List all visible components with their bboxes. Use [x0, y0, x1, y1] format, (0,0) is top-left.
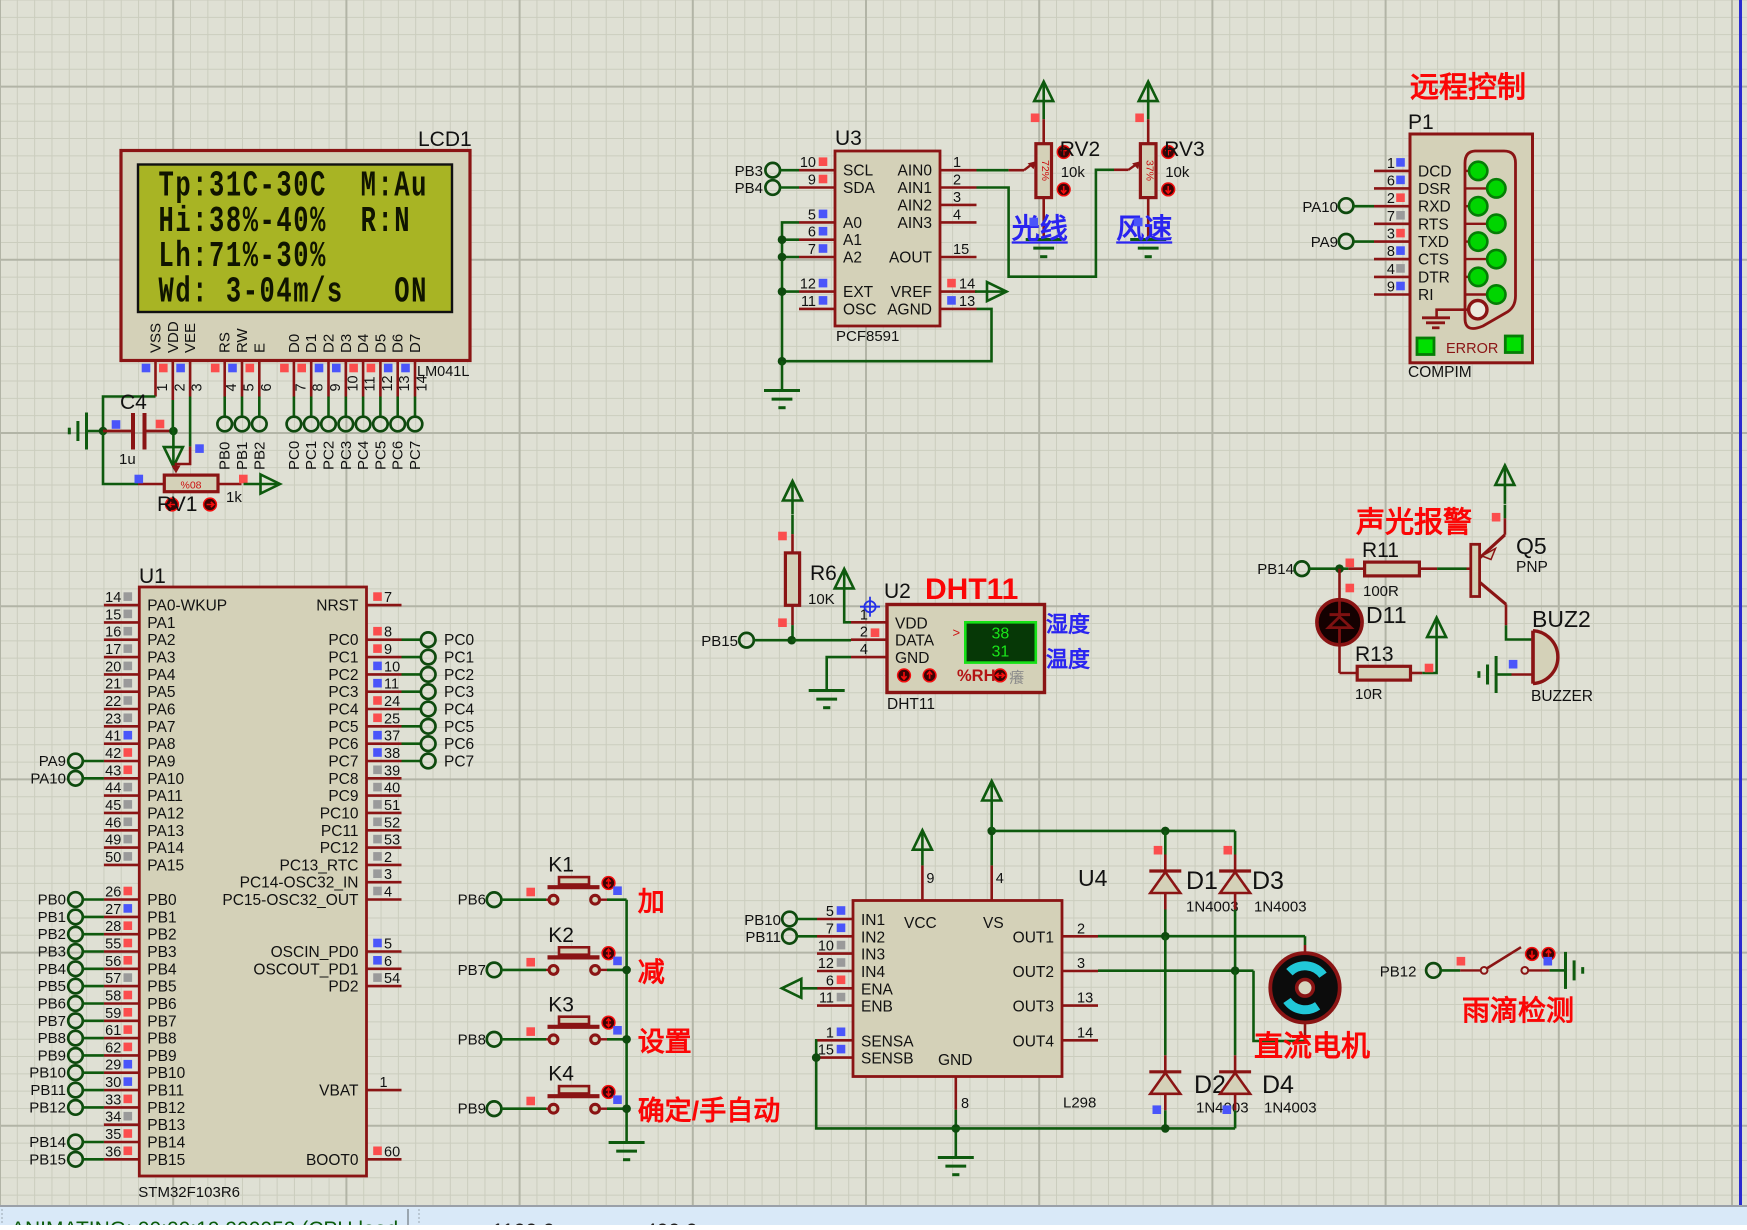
svg-text:PC4: PC4	[328, 702, 359, 719]
svg-text:34: 34	[105, 1110, 121, 1126]
svg-text:59: 59	[105, 1006, 121, 1022]
svg-text:GND: GND	[895, 650, 929, 667]
DB9 pin circle	[1469, 232, 1487, 250]
svg-text:10: 10	[345, 375, 361, 391]
terminal PB7 (button K2)	[487, 963, 502, 978]
P1 status LED square right	[1505, 336, 1522, 353]
U1 pin 17 PA3	[104, 656, 139, 659]
svg-text:PA15: PA15	[147, 857, 184, 874]
terminal PB2	[252, 417, 267, 432]
LCD pin 11 D4	[362, 361, 365, 397]
svg-text:1N4003: 1N4003	[1254, 899, 1307, 916]
wire AIN0 to RV2 wiper	[977, 169, 1009, 172]
wire K2 to bus	[607, 969, 627, 972]
terminal PC7 (U1)	[402, 760, 422, 763]
U1 pin 53 PC12	[367, 846, 402, 849]
svg-text:Q5: Q5	[1516, 533, 1547, 559]
wire pin to terminal PC3	[344, 397, 347, 418]
wire GND to ground	[954, 1110, 957, 1157]
svg-text:SDA: SDA	[843, 180, 876, 197]
wire PB1	[82, 916, 104, 919]
svg-text:癢: 癢	[1009, 669, 1024, 687]
wire PB15	[82, 1158, 104, 1161]
LCD screen	[138, 165, 452, 313]
svg-text:R13: R13	[1355, 643, 1394, 666]
wire PB6 to K1	[501, 898, 546, 901]
DB9 pin 9 circle (white)	[1469, 301, 1487, 319]
svg-text:15: 15	[105, 607, 121, 623]
U1 pin 58 PB6	[104, 1002, 139, 1005]
potentiometer RV1	[138, 483, 164, 486]
svg-text:2: 2	[860, 625, 868, 641]
DB9 pin circle	[1487, 215, 1505, 233]
power terminal (above RV2)	[1034, 82, 1053, 102]
svg-text:PB5: PB5	[147, 979, 176, 996]
LCD pin 5 RW	[241, 361, 244, 397]
power terminal right (VREF)	[987, 282, 1007, 301]
svg-text:PB6: PB6	[38, 996, 66, 1013]
svg-text:OSCOUT_PD1: OSCOUT_PD1	[253, 961, 358, 978]
svg-text:E: E	[251, 343, 268, 353]
junction D1 top	[1161, 827, 1170, 836]
svg-text:PA3: PA3	[147, 650, 175, 667]
svg-text:PC2: PC2	[444, 667, 474, 684]
wire PB4 to SDA	[780, 186, 799, 189]
svg-text:PCF8591: PCF8591	[836, 328, 899, 345]
wire K1 to bus	[607, 898, 627, 901]
terminal PA10 (P1)	[1339, 198, 1354, 213]
svg-text:5: 5	[384, 937, 392, 953]
svg-text:PC7: PC7	[407, 441, 424, 470]
svg-text:AIN3: AIN3	[898, 215, 932, 232]
svg-text:PA9: PA9	[1311, 234, 1338, 251]
svg-text:1: 1	[380, 1075, 388, 1091]
junction SENSB	[812, 1053, 821, 1062]
wire OUT1 row	[1098, 935, 1305, 938]
terminal PB14 (U1)	[68, 1135, 83, 1150]
svg-text:PA9: PA9	[39, 753, 66, 770]
U3 pin 11 OSC	[799, 308, 835, 311]
svg-text:PC2: PC2	[321, 441, 338, 470]
wire K3 to bus	[607, 1038, 627, 1041]
U4 pin 14 OUT4	[1062, 1039, 1098, 1042]
terminal PC2	[321, 417, 336, 432]
svg-text:26: 26	[105, 885, 121, 901]
U1 pin 46 PA13	[104, 829, 139, 832]
power terminal (Q5)	[1495, 465, 1514, 485]
svg-text:PB3: PB3	[147, 944, 176, 961]
terminal PB10 (U1)	[68, 1065, 83, 1080]
power terminal (above R6)	[783, 481, 802, 501]
svg-text:A0: A0	[843, 215, 862, 232]
terminal PB8 (U1)	[68, 1031, 83, 1046]
U3 pin 5 A0	[799, 221, 835, 224]
svg-text:1N4003: 1N4003	[1196, 1100, 1249, 1117]
svg-text:PA13: PA13	[147, 823, 184, 840]
U1 pin 41 PA8	[104, 742, 139, 745]
svg-text:RS: RS	[217, 332, 234, 353]
wire VS to rail	[990, 831, 993, 866]
wire pin2 VDD	[172, 400, 175, 431]
U4 pin 9 VCC	[921, 865, 924, 900]
LCD pin 12 D5	[379, 361, 382, 397]
svg-text:22: 22	[105, 694, 121, 710]
svg-text:K2: K2	[548, 924, 574, 947]
U1 pin 37 PC6	[367, 742, 402, 745]
wire PB9	[82, 1054, 104, 1057]
svg-text:PB2: PB2	[147, 927, 176, 944]
terminal PB0 (U1)	[68, 892, 83, 907]
svg-text:PC10: PC10	[320, 805, 359, 822]
svg-text:4: 4	[996, 871, 1004, 887]
svg-text:9: 9	[384, 642, 392, 658]
wire to D2	[1164, 936, 1167, 1055]
wire PA9 to TXD	[1353, 240, 1374, 243]
svg-text:11: 11	[801, 294, 816, 310]
U1 pin 54 PD2	[367, 985, 402, 988]
U1 pin 42 PA9	[104, 760, 139, 763]
power terminal left (ENA)	[782, 979, 802, 998]
DB9 pin circle	[1469, 197, 1487, 215]
U4 pin 12 IN4	[817, 970, 853, 973]
DB9 pin circle	[1469, 268, 1487, 286]
P1 pin 3 TXD	[1374, 240, 1410, 243]
U1 pin 34 PB13	[104, 1123, 139, 1126]
svg-text:4: 4	[1387, 262, 1395, 278]
svg-text:PB7: PB7	[147, 1013, 176, 1030]
svg-text:远程控制: 远程控制	[1410, 71, 1526, 104]
svg-text:PC13_RTC: PC13_RTC	[280, 857, 359, 874]
junction D2 bottom	[1161, 1124, 1170, 1133]
terminal PC5	[373, 417, 388, 432]
U1 pin 24 PC4	[367, 708, 402, 711]
DB9 connector outline	[1465, 151, 1516, 329]
junction OUT2/D3	[1231, 966, 1240, 975]
wire BUZ2 bottom to ground	[1512, 673, 1534, 676]
svg-text:L298: L298	[1063, 1095, 1096, 1112]
svg-text:60: 60	[384, 1144, 400, 1160]
terminal PB11 (U1)	[68, 1083, 83, 1098]
resistor R13	[1338, 644, 1341, 673]
svg-text:PA9: PA9	[147, 754, 175, 771]
svg-text:1: 1	[826, 1025, 834, 1041]
ground (U4)	[938, 1156, 974, 1159]
svg-text:PB15: PB15	[147, 1152, 185, 1169]
svg-text:4: 4	[384, 885, 392, 901]
svg-text:P1: P1	[1408, 111, 1434, 134]
power terminal (VS)	[982, 781, 1001, 801]
P1 pin 9 RI	[1374, 293, 1410, 296]
svg-text:DSR: DSR	[1418, 181, 1451, 198]
svg-text:6: 6	[826, 973, 834, 989]
LCD pin 1 VSS	[154, 361, 157, 397]
svg-text:14: 14	[1077, 1025, 1093, 1041]
junction GND rail	[952, 1124, 961, 1133]
P1 pin 7 RTS	[1374, 223, 1410, 226]
wire PB3 to SCL	[780, 169, 799, 172]
potentiometer RV3 body	[1147, 119, 1150, 144]
svg-text:46: 46	[105, 815, 121, 831]
svg-text:61: 61	[105, 1023, 121, 1039]
svg-text:PC4: PC4	[355, 441, 372, 470]
svg-text:24: 24	[384, 694, 400, 710]
svg-text:PB15: PB15	[701, 633, 738, 650]
svg-text:EXT: EXT	[843, 284, 874, 301]
LCD pin 3 VEE	[189, 361, 192, 397]
svg-text:PB10: PB10	[744, 912, 781, 929]
power terminal down (VDD)	[164, 447, 183, 467]
P1 pin 2 RXD	[1374, 205, 1410, 208]
svg-text:45: 45	[105, 798, 121, 814]
wire K4 to bus	[607, 1107, 627, 1110]
LED D11	[1338, 569, 1341, 602]
terminal PC2 (U1)	[402, 673, 422, 676]
svg-text:D4: D4	[355, 334, 372, 353]
svg-text:LM041L: LM041L	[417, 364, 469, 380]
wire pin to terminal PC4	[362, 397, 365, 418]
svg-text:AGND: AGND	[887, 301, 932, 318]
terminal PB7 (U1)	[68, 1014, 83, 1029]
svg-text:PNP: PNP	[1516, 559, 1548, 576]
svg-text:D6: D6	[390, 334, 407, 353]
svg-text:ANIMATING: 00:00:19.900052 (CP: ANIMATING: 00:00:19.900052 (CPU load 4%)	[11, 1218, 441, 1225]
diode D2 1N4003	[1164, 1055, 1167, 1072]
svg-text:PC14-OSC32_IN: PC14-OSC32_IN	[240, 875, 359, 892]
wire to D1	[1164, 831, 1167, 855]
K4 press knob	[602, 1086, 615, 1099]
svg-text:PB0: PB0	[147, 892, 177, 909]
svg-text:OSC: OSC	[843, 301, 877, 318]
svg-text:K1: K1	[548, 854, 574, 877]
wire to ground	[781, 361, 784, 390]
U1 pin 5 OSCIN_PD0	[367, 950, 402, 953]
U1 pin 49 PA14	[104, 846, 139, 849]
P1 pin 6 DSR	[1374, 187, 1410, 190]
U1 pin 59 PB7	[104, 1019, 139, 1022]
svg-text:VDD: VDD	[165, 321, 182, 353]
DB9 pin link	[1464, 240, 1478, 242]
svg-text:ENB: ENB	[861, 999, 893, 1016]
U1 pin 16 PA2	[104, 638, 139, 641]
ground (RV2)	[1026, 238, 1062, 241]
svg-text:VDD: VDD	[895, 615, 928, 632]
U4 pin 2 OUT1	[1062, 935, 1098, 938]
DHT11 pin 2 DATA	[851, 638, 887, 641]
terminal PB11 (U4)	[782, 929, 797, 944]
svg-text:7: 7	[826, 921, 834, 937]
svg-text:IN3: IN3	[861, 947, 885, 964]
svg-text:PB9: PB9	[458, 1101, 486, 1118]
svg-text:37%: 37%	[1144, 160, 1156, 181]
P1 status LED square left	[1417, 338, 1434, 355]
svg-text:%08: %08	[180, 480, 201, 492]
svg-text:12: 12	[800, 277, 816, 293]
svg-text:PA11: PA11	[147, 788, 183, 805]
wire PB8 to K3	[501, 1038, 546, 1041]
U1 pin 52 PC11	[367, 829, 402, 832]
U4 pin 4 VS	[990, 865, 993, 900]
U1 pin 15 PA1	[104, 621, 139, 624]
U1 pin 23 PA7	[104, 725, 139, 728]
junction C4 left	[99, 427, 108, 436]
U4 pin 10 IN3	[817, 952, 853, 955]
svg-text:PC1: PC1	[328, 650, 358, 667]
wire D1-OUT1	[1164, 910, 1167, 937]
svg-text:25: 25	[384, 711, 400, 727]
svg-text:>: >	[953, 625, 961, 640]
ground (DHT11)	[809, 689, 845, 692]
terminal PA10 (U1)	[68, 771, 83, 786]
svg-text:PB8: PB8	[38, 1030, 66, 1047]
power terminal right (RV1)	[261, 475, 281, 494]
svg-text:3: 3	[1387, 227, 1395, 243]
DB9 pin circle	[1487, 250, 1505, 268]
U3 pin 10 SCL	[799, 169, 835, 172]
DC motor	[1270, 953, 1339, 1022]
svg-text:PA14: PA14	[147, 840, 184, 857]
svg-text:D5: D5	[372, 334, 389, 353]
svg-text:BUZ2: BUZ2	[1532, 606, 1591, 632]
junction VDD	[169, 427, 178, 436]
LCD pin 13 D6	[396, 361, 399, 397]
wire PB7	[82, 1019, 104, 1022]
svg-text:PC11: PC11	[321, 823, 359, 840]
svg-text:BUZZER: BUZZER	[1531, 688, 1593, 705]
U1 pin 27 PB1	[104, 916, 139, 919]
U4 pin 15 SENSB	[817, 1056, 853, 1059]
ground (left of C4)	[87, 430, 104, 433]
svg-text:PB1: PB1	[147, 909, 176, 926]
svg-text:D4: D4	[1262, 1071, 1294, 1099]
svg-text:雨滴检测: 雨滴检测	[1462, 994, 1574, 1026]
svg-text:OUT1: OUT1	[1013, 929, 1054, 946]
wire PA10	[82, 777, 104, 780]
wire PB15 to DATA	[753, 639, 791, 642]
U1 pin 21 PA5	[104, 690, 139, 693]
svg-text:PB7: PB7	[38, 1013, 66, 1030]
LCD pin 4 RS	[223, 361, 226, 397]
wire pin to terminal PC6	[396, 397, 399, 418]
svg-text:U2: U2	[884, 580, 911, 603]
svg-text:SENSB: SENSB	[861, 1051, 914, 1068]
svg-text:VCC: VCC	[904, 915, 937, 932]
svg-text:PB10: PB10	[29, 1065, 66, 1082]
svg-text:PB4: PB4	[735, 180, 763, 197]
U1 pin 14 PA0-WKUP	[104, 604, 139, 607]
svg-text:PB5: PB5	[38, 978, 66, 995]
svg-text:51: 51	[384, 798, 400, 814]
svg-text:15: 15	[818, 1043, 834, 1059]
terminal PB14 (alarm)	[1295, 561, 1310, 576]
svg-text:37: 37	[384, 729, 400, 745]
svg-text:PB4: PB4	[147, 961, 177, 978]
U1 pin 35 PB14	[104, 1141, 139, 1144]
svg-text:10k: 10k	[1165, 164, 1190, 181]
terminal PB5 (U1)	[68, 979, 83, 994]
U1 pin 50 PA15	[104, 864, 139, 867]
U1 pin 9 PC1	[367, 656, 402, 659]
svg-text:2: 2	[953, 173, 961, 189]
wire PB0	[82, 898, 104, 901]
P1 pin 1 DCD	[1374, 170, 1410, 173]
svg-text:PC9: PC9	[328, 788, 358, 805]
terminal PB15 (U1)	[68, 1152, 83, 1167]
svg-text:IN4: IN4	[861, 964, 886, 981]
K2 press knob	[602, 947, 615, 960]
top rail (VS)	[992, 830, 1235, 833]
wire VSS net	[103, 397, 156, 432]
wire PB6	[82, 1002, 104, 1005]
power terminal (above RV3)	[1139, 82, 1158, 102]
svg-text:PD2: PD2	[328, 979, 358, 996]
svg-text:AIN2: AIN2	[898, 197, 932, 214]
svg-text:4: 4	[953, 207, 961, 223]
svg-text:PC7: PC7	[328, 754, 358, 771]
svg-text:10k: 10k	[1061, 164, 1086, 181]
RV2 adjust buttons	[1057, 146, 1070, 159]
terminal PC0	[287, 417, 302, 432]
svg-text:R11: R11	[1362, 539, 1399, 562]
terminal PC0 (U1)	[402, 638, 422, 641]
U1 pin 38 PC7	[367, 760, 402, 763]
wire pin to terminal PC1	[310, 397, 313, 418]
svg-text:12: 12	[380, 375, 396, 391]
svg-text:PB0: PB0	[38, 892, 66, 909]
svg-text:PB0: PB0	[217, 442, 234, 470]
svg-text:IN2: IN2	[861, 929, 885, 946]
wire pin to terminal PB0	[223, 397, 226, 418]
svg-text:RW: RW	[234, 327, 251, 353]
U1 pin 11 PC3	[367, 690, 402, 693]
svg-text:28: 28	[105, 919, 121, 935]
svg-text:RTS: RTS	[1418, 216, 1449, 233]
wire Q5 emitter to BUZ2	[1505, 604, 1508, 625]
DHT11 pin 4 GND	[851, 656, 887, 659]
svg-text:14: 14	[959, 277, 975, 293]
U1 pin 39 PC8	[367, 777, 402, 780]
U3 pin 12 EXT	[799, 290, 835, 293]
U1 pin 22 PA6	[104, 708, 139, 711]
svg-text:7: 7	[293, 383, 309, 391]
U1 pin 28 PB2	[104, 933, 139, 936]
svg-text:VBAT: VBAT	[319, 1083, 359, 1100]
svg-text:2: 2	[172, 383, 188, 391]
U1 pin 26 PB0	[104, 898, 139, 901]
svg-text:BOOT0: BOOT0	[306, 1152, 359, 1169]
svg-text:ENA: ENA	[861, 981, 894, 998]
svg-text:VEE: VEE	[182, 323, 199, 353]
svg-text:3: 3	[953, 190, 961, 206]
resistor R11	[1348, 567, 1364, 570]
U1 pin 62 PB9	[104, 1054, 139, 1057]
svg-text:11: 11	[363, 376, 379, 391]
svg-text:5: 5	[808, 207, 816, 223]
svg-text:A2: A2	[843, 250, 862, 267]
LCD pin 9 D2	[327, 361, 330, 397]
terminal PB3 (U1)	[68, 944, 83, 959]
DB9 pin link	[1464, 293, 1496, 295]
svg-text:3: 3	[190, 383, 206, 391]
svg-text:PB12: PB12	[147, 1100, 185, 1117]
svg-text:2: 2	[384, 850, 392, 866]
U1 pin 20 PA4	[104, 673, 139, 676]
junction K2	[622, 966, 631, 975]
svg-text:17: 17	[105, 642, 121, 658]
junction EXT	[778, 287, 787, 296]
svg-text:IN1: IN1	[861, 912, 885, 929]
wire PB11 to IN2	[796, 935, 817, 938]
terminal PB2 (U1)	[68, 927, 83, 942]
